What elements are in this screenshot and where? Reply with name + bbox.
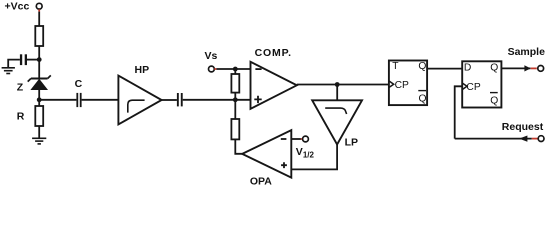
svg-text:Z: Z — [17, 82, 24, 94]
node junction 1 — [37, 57, 42, 62]
wire node2 to capacitor C — [39, 99, 76, 101]
wire COMP output — [297, 84, 389, 86]
svg-text:R: R — [17, 110, 25, 122]
U2 clock wedge — [462, 83, 467, 90]
resistor R — [35, 106, 43, 126]
HP inner symbol — [128, 100, 145, 112]
capacitor C — [76, 93, 81, 107]
wire Vs to COMP minus input — [216, 68, 250, 70]
Request arrowhead — [519, 136, 527, 142]
node junction COMP out — [335, 82, 340, 87]
terminal +Vcc — [36, 3, 42, 9]
red segment Request — [532, 138, 538, 140]
svg-text:Vs: Vs — [205, 50, 218, 62]
svg-text:Q: Q — [418, 61, 426, 72]
wire OPA minus to V1/2 — [291, 138, 301, 140]
wire U2 CP to Request line — [455, 86, 463, 138]
terminal Sample — [538, 66, 544, 72]
wire HP to capacitor 2 — [162, 99, 177, 101]
wire node2 to R — [38, 100, 40, 106]
svg-text:Sample: Sample — [508, 46, 546, 58]
OPA minus sign — [281, 138, 287, 140]
terminal Vs — [209, 66, 215, 72]
flip-flop U1 (T) — [389, 61, 427, 106]
node junction main — [233, 97, 238, 102]
wire node1 to zener — [38, 60, 40, 78]
wire R1 to node1 — [38, 46, 40, 60]
red tick at Vs — [214, 68, 216, 70]
zener diode Z — [28, 75, 51, 89]
op-amp HP (high-pass block) — [118, 76, 161, 125]
OPA plus sign — [281, 162, 287, 168]
wire +Vcc to R1 — [38, 12, 40, 26]
svg-text:COMP.: COMP. — [255, 47, 292, 59]
wire U1 Q to U2 D — [427, 68, 462, 70]
svg-text:D: D — [464, 63, 471, 74]
ground top-left — [2, 68, 15, 74]
svg-text:HP: HP — [135, 64, 150, 76]
svg-text:CP: CP — [466, 82, 480, 93]
wire capacitor to ground — [8, 60, 20, 68]
red segment Sample — [531, 67, 537, 69]
wire zener to node2 — [38, 90, 40, 100]
node junction 2 — [37, 97, 42, 102]
COMP minus sign — [255, 68, 261, 70]
svg-text:LP: LP — [345, 137, 358, 149]
COMP plus sign — [254, 96, 261, 103]
svg-text:Request: Request — [502, 121, 544, 133]
wire C2 to COMP plus input — [183, 99, 251, 101]
svg-text:Q: Q — [490, 63, 498, 74]
capacitor Cin plates — [20, 54, 27, 65]
wire C to HP — [82, 99, 119, 101]
capacitor C2 — [177, 93, 183, 106]
op-amp OPA — [242, 130, 291, 177]
wire U2 Q to Sample — [501, 67, 530, 69]
svg-text:+Vcc: +Vcc — [5, 1, 30, 13]
wire node1 to capacitor — [27, 59, 39, 61]
low-pass LP — [312, 100, 362, 144]
svg-text:Q: Q — [490, 96, 498, 107]
red tick at V1/2 — [301, 138, 303, 140]
terminal Request — [538, 136, 544, 142]
red tick at +Vcc — [38, 9, 40, 11]
comparator COMP — [251, 62, 297, 109]
svg-text:OPA: OPA — [250, 175, 272, 186]
U1 clock wedge — [389, 81, 394, 88]
ground below R — [32, 138, 46, 144]
resistor R2 — [234, 69, 236, 74]
wire junction to LP input — [336, 85, 338, 101]
svg-text:Q: Q — [419, 94, 427, 105]
terminal V1/2 — [303, 136, 309, 142]
Sample arrowhead — [524, 65, 530, 71]
node junction Vs — [233, 67, 238, 72]
resistor R1 — [35, 26, 43, 46]
flip-flop U2 (D) — [462, 61, 501, 107]
wire Request line — [455, 138, 532, 140]
wire R3 to OPA output — [235, 139, 242, 153]
svg-text:C: C — [75, 78, 83, 90]
svg-text:T: T — [392, 61, 399, 72]
wire LP output to OPA plus — [291, 144, 337, 169]
wire R to ground — [38, 126, 40, 138]
svg-text:CP: CP — [395, 80, 409, 91]
resistor R3 — [234, 100, 236, 119]
LP inner symbol — [325, 108, 346, 114]
